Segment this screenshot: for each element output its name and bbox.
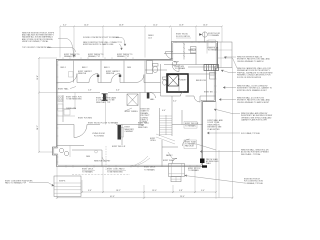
svg-text:EXIST DINING: EXIST DINING [125, 111, 138, 113]
corridor north wall [57, 82, 161, 84]
top dimension line [59, 24, 223, 27]
windows ticks left wall [56, 61, 58, 162]
svg-text:SOUND CONCRETE STOOP TO REMAIN: SOUND CONCRETE STOOP TO REMAIN [83, 36, 120, 39]
counter edge [57, 108, 77, 110]
wing closet box [191, 47, 197, 54]
svg-text:REMOVED, TYP: REMOVED, TYP [96, 102, 111, 104]
kitchen texts [96, 97, 117, 104]
svg-text:3'-2": 3'-2" [173, 101, 177, 103]
kitchen counters [58, 95, 64, 122]
stair walls [160, 96, 173, 136]
svg-text:4'-0": 4'-0" [162, 110, 166, 112]
leader arrowheads [51, 44, 226, 186]
note top-left block [22, 33, 55, 43]
fireplace [118, 125, 124, 140]
svg-text:PATCH AT: PATCH AT [185, 145, 195, 148]
family room walls [162, 140, 178, 167]
keynote circle symbol [199, 32, 220, 42]
new wall black fill [200, 159, 205, 164]
core top wall extension [188, 73, 216, 75]
svg-text:VERIFY W/ OWNER, TYPICAL: VERIFY W/ OWNER, TYPICAL [22, 40, 48, 43]
svg-text:DEN: DEN [86, 156, 91, 158]
lower room door arc [183, 139, 190, 146]
svg-text:REMOVE: REMOVE [106, 73, 115, 75]
pantry partition [74, 93, 76, 109]
svg-text:EXISTING SUPPLY & WASTE LINE: EXISTING SUPPLY & WASTE LINE [83, 43, 114, 46]
svg-text:2'-6": 2'-6" [88, 90, 92, 92]
bottom-left deck steps [54, 176, 81, 197]
svg-text:PLAN NOTES: PLAN NOTES [208, 128, 221, 131]
lower left bath bump-out fixtures [57, 146, 84, 158]
scattered keynote smudges [58, 62, 213, 163]
bedroom door arc 1 [89, 74, 98, 83]
garage south wall 2 [188, 66, 216, 68]
tub [147, 61, 153, 74]
corridor south wall [57, 92, 161, 94]
right lower extension line [218, 150, 220, 198]
svg-text:6'-2": 6'-2" [63, 24, 67, 26]
bath door arc [150, 93, 156, 99]
bath north wall [145, 69, 167, 71]
garage door arc [172, 65, 179, 72]
right note 2 [221, 58, 273, 79]
stair up arrow [165, 115, 167, 135]
right note 8 [185, 176, 264, 185]
counter line lower [57, 115, 76, 117]
svg-text:EXIST WD FLR: EXIST WD FLR [112, 146, 126, 148]
svg-text:REMOVED: REMOVED [138, 127, 148, 129]
living north wall [57, 124, 144, 126]
bottom dimension line 1 [81, 190, 217, 193]
svg-text:TO BE REMOVED: TO BE REMOVED [66, 99, 82, 101]
dishwasher [64, 110, 70, 116]
svg-text:24'-2": 24'-2" [37, 125, 39, 130]
powder room west wall [160, 64, 162, 96]
svg-text:FLR. DRAIN, TYPICAL: FLR. DRAIN, TYPICAL [241, 132, 260, 135]
svg-text:BEDROOM: BEDROOM [196, 80, 206, 82]
svg-text:TO REMAIN: TO REMAIN [208, 49, 219, 52]
chimney bump right wall [206, 68, 208, 102]
svg-text:TOP OF EXIST CONCRETE WALL: TOP OF EXIST CONCRETE WALL [22, 46, 52, 49]
svg-text:REMOVE: REMOVE [78, 73, 87, 75]
garage labels lower [144, 167, 156, 172]
svg-text:BED 3: BED 3 [104, 67, 109, 69]
small leaders [70, 87, 172, 161]
door jamb marks [97, 75, 121, 77]
svg-text:CEILING FINISHES TO MATCH EXIS: CEILING FINISHES TO MATCH EXIST [237, 101, 270, 104]
svg-text:PATIO TO REMAIN, TYP: PATIO TO REMAIN, TYP [5, 182, 27, 185]
svg-text:9'-6": 9'-6" [88, 190, 92, 192]
leader top-left note [58, 39, 74, 58]
bedroom divider 2 [123, 61, 125, 83]
south wall of right rooms [161, 95, 216, 97]
svg-text:41'-6": 41'-6" [110, 196, 115, 198]
svg-text:CHIMNEY: CHIMNEY [125, 131, 134, 133]
svg-text:DEN: DEN [127, 67, 132, 69]
svg-text:TO REMAIN, TYPICAL: TO REMAIN, TYPICAL [244, 182, 263, 185]
svg-text:FLOORING: FLOORING [94, 136, 104, 138]
exterior wall outline [53, 42, 218, 167]
stair-bath core thick walls [167, 74, 188, 92]
stair treads [160, 116, 173, 134]
entry door arc [172, 159, 177, 164]
svg-text:TO REMAIN: TO REMAIN [175, 67, 186, 70]
right deck [218, 42, 233, 68]
bedroom carpet notes [78, 70, 120, 75]
skylight x-box [127, 94, 138, 106]
svg-text:CABINET PLANS FOR SCOPE: CABINET PLANS FOR SCOPE [241, 119, 268, 122]
room labels [61, 67, 132, 69]
right note 1 [224, 56, 271, 63]
wing keynote texts [148, 34, 191, 40]
svg-text:4'-0": 4'-0" [116, 90, 120, 92]
wing cabinet [208, 40, 216, 47]
svg-text:STEPS: STEPS [59, 181, 66, 183]
svg-text:18'-2": 18'-2" [116, 190, 121, 192]
windows ticks top wall [63, 41, 212, 59]
svg-text:WALL: WALL [206, 162, 211, 165]
stair break lines [156, 134, 175, 144]
svg-text:BED 2: BED 2 [82, 67, 87, 69]
svg-text:TO REMAIN: TO REMAIN [188, 169, 199, 172]
hatched wall [183, 43, 185, 60]
bedroom divider 1 [100, 61, 102, 83]
lav sink [172, 61, 176, 65]
note left-bottom [5, 180, 54, 187]
right mid text stack [208, 119, 224, 131]
bottom dimension line 2 [56, 196, 234, 199]
fireplace note [125, 127, 135, 134]
windows ticks right and bottom walls [66, 73, 217, 168]
svg-text:EXIST HALL: EXIST HALL [58, 87, 69, 90]
living door arc [74, 125, 87, 138]
svg-text:CLG: CLG [148, 38, 152, 40]
core interior partition [178, 74, 180, 92]
entry porch [169, 164, 185, 177]
svg-text:10'-6": 10'-6" [203, 24, 208, 26]
porch steps [171, 177, 181, 182]
svg-text:FLOOR, PATCH: FLOOR, PATCH [176, 35, 190, 38]
laundry texts [175, 66, 186, 70]
svg-text:12'-4": 12'-4" [153, 24, 158, 26]
patio curve [130, 156, 150, 167]
left room dresser [69, 72, 74, 77]
garage south wall [164, 64, 216, 66]
keynote box 1 [138, 122, 149, 130]
lower mid vertical wall [101, 150, 103, 167]
svg-text:REMOVE CARPET: REMOVE CARPET [94, 160, 111, 163]
svg-text:TO REMAIN: TO REMAIN [144, 169, 155, 172]
right note 3 [223, 85, 273, 92]
svg-text:BED 1: BED 1 [61, 67, 66, 69]
right note 6 [207, 132, 260, 135]
svg-text:EXIST DECK: EXIST DECK [144, 167, 156, 169]
svg-text:SCOPE OF SPECIFICATION: SCOPE OF SPECIFICATION [237, 76, 262, 79]
deck edge dashed [72, 174, 130, 176]
core shaft x-box [168, 75, 179, 86]
svg-text:TO BE REMOVED: TO BE REMOVED [107, 172, 123, 174]
right bedroom door arc [194, 96, 200, 102]
bedroom door arc 3 [136, 75, 144, 83]
vestibule door arc [164, 53, 196, 55]
bath west wall [144, 61, 146, 93]
keynote box 2 [184, 140, 216, 150]
stair hall wall [139, 93, 141, 125]
svg-text:EXIST FLR REG: EXIST FLR REG [78, 118, 93, 120]
svg-text:12'-8": 12'-8" [179, 24, 184, 26]
powder toilet [163, 77, 167, 85]
svg-text:9'-4": 9'-4" [201, 190, 205, 192]
svg-text:20'-8": 20'-8" [119, 24, 124, 26]
garage right room notes [208, 46, 220, 51]
south wall right step [203, 101, 216, 103]
right note 7 [200, 149, 269, 156]
ceiling fixture circle [95, 150, 98, 153]
note beside black fill [206, 158, 219, 165]
deck keynote 2 [107, 168, 126, 174]
svg-text:14'-6": 14'-6" [84, 24, 89, 26]
bath door header dark [147, 93, 150, 99]
bottom dim extension lines [57, 68, 233, 199]
svg-text:REMAIN, TYP: REMAIN, TYP [117, 55, 130, 58]
left dimension line [37, 57, 57, 153]
roof dashed line [105, 146, 107, 170]
svg-text:EXIST SLAB: EXIST SLAB [163, 159, 175, 162]
core label [178, 79, 179, 80]
kitchen note [66, 97, 82, 101]
svg-text:SEE PLANS - TYPICAL: SEE PLANS - TYPICAL [241, 153, 261, 156]
dark masonry box [204, 65, 219, 71]
svg-text:TO REMAIN: TO REMAIN [185, 124, 196, 127]
right note 4 [219, 97, 271, 104]
svg-text:TO REMAIN: TO REMAIN [208, 34, 219, 37]
svg-text:EXIST BR: EXIST BR [204, 92, 213, 94]
core door arc [181, 91, 186, 96]
svg-text:STEP: STEP [174, 62, 180, 64]
bedroom door arc 2 [111, 74, 120, 83]
right note 5 [214, 109, 272, 122]
small fixture [105, 94, 108, 97]
window keynotes above top wall [64, 54, 133, 58]
svg-text:EXIST WOOD FLOOR TO REMAIN: EXIST WOOD FLOOR TO REMAIN [88, 122, 119, 125]
bedroom west wall [73, 61, 75, 83]
svg-text:EXIST CONC PATIO: EXIST CONC PATIO [107, 168, 125, 171]
stoop note [188, 168, 201, 172]
second wall fill mark [202, 165, 207, 167]
svg-text:EXISTING UNTIL FRAMING IS SET: EXISTING UNTIL FRAMING IS SET [237, 89, 268, 92]
svg-text:CEILING FINISHES TO MATCH: CEILING FINISHES TO MATCH [237, 60, 264, 63]
deck keynote 1 [82, 169, 95, 174]
upper hall wall [181, 110, 183, 125]
exterior wall inner line [54, 43, 216, 166]
steel column [102, 94, 108, 101]
lower mid wall [72, 149, 102, 151]
dining partition [105, 100, 107, 125]
living room label [92, 133, 105, 138]
svg-text:9'-8": 9'-8" [179, 190, 183, 192]
keynote box 2a [184, 122, 199, 129]
svg-text:REMAIN, TYP: REMAIN, TYP [88, 55, 101, 58]
note top-middle 1 [83, 36, 125, 46]
note top-middle 2 [83, 42, 122, 50]
svg-text:16'-4": 16'-4" [37, 75, 39, 80]
svg-text:TO REMAIN: TO REMAIN [82, 171, 93, 174]
living east wall [121, 125, 123, 146]
svg-text:GARAGE: GARAGE [188, 49, 197, 52]
stair keynote [141, 109, 151, 124]
svg-text:29'-4": 29'-4" [180, 196, 185, 198]
top dim extension lines [60, 28, 222, 58]
left room door arc [68, 74, 77, 83]
svg-text:13'-0": 13'-0" [152, 190, 157, 192]
svg-text:OPNG: OPNG [150, 140, 156, 142]
toilet [153, 64, 159, 73]
svg-text:DINING RM: DINING RM [66, 108, 77, 110]
svg-text:LNDRY: LNDRY [180, 80, 187, 82]
svg-text:HALL: HALL [150, 98, 155, 101]
hall south wall [172, 124, 203, 126]
